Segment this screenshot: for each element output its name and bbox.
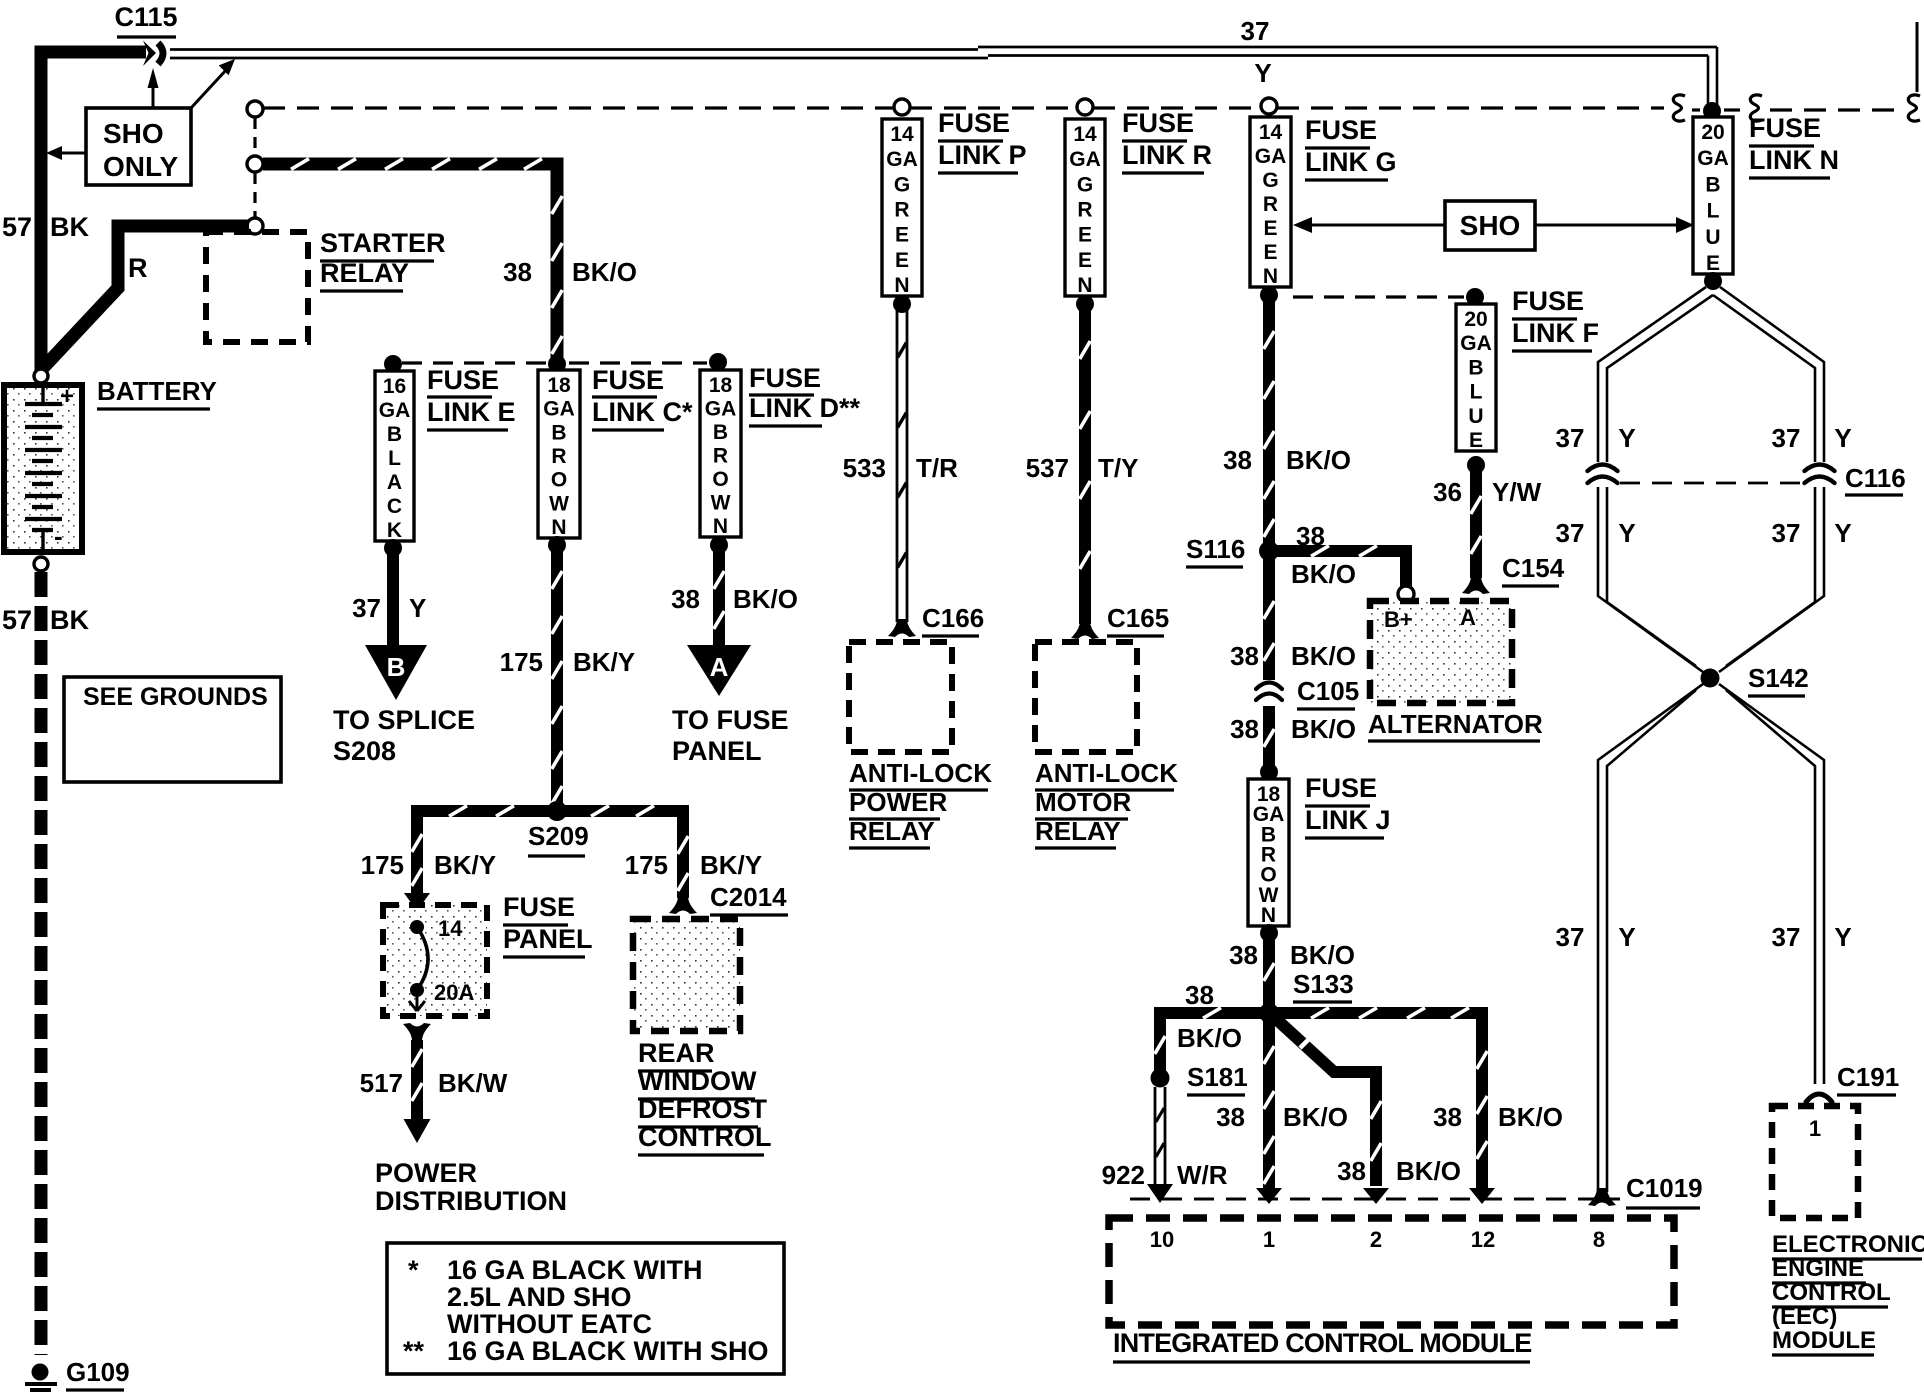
svg-text:BK/O: BK/O (1498, 1102, 1563, 1132)
svg-text:WITHOUT EATC: WITHOUT EATC (447, 1309, 652, 1339)
svg-text:C154: C154 (1502, 553, 1565, 583)
svg-text:BK/O: BK/O (1286, 445, 1351, 475)
svg-text:N: N (551, 516, 566, 539)
svg-text:FUSE: FUSE (1122, 108, 1194, 138)
svg-text:LINK P: LINK P (938, 140, 1027, 170)
svg-text:N: N (1261, 904, 1276, 927)
svg-text:2.5L AND SHO: 2.5L AND SHO (447, 1282, 632, 1312)
svg-text:FUSE: FUSE (427, 365, 499, 395)
svg-text:Y: Y (1618, 518, 1635, 548)
svg-text:LINK C*: LINK C* (592, 397, 693, 427)
svg-text:E: E (895, 249, 909, 272)
svg-text:A: A (1460, 605, 1476, 630)
svg-text:CONTROL: CONTROL (1772, 1279, 1891, 1306)
svg-text:C115: C115 (114, 2, 177, 32)
svg-text:BK/O: BK/O (733, 584, 798, 614)
svg-text:BK: BK (50, 605, 89, 635)
svg-text:GA: GA (1255, 145, 1287, 168)
svg-text:R: R (713, 445, 728, 468)
svg-text:RELAY: RELAY (1035, 816, 1121, 846)
svg-text:ANTI-LOCK: ANTI-LOCK (849, 758, 992, 788)
svg-text:POWER: POWER (375, 1158, 477, 1188)
svg-text:BK/O: BK/O (1291, 641, 1356, 671)
svg-text:FUSE: FUSE (749, 363, 821, 393)
svg-text:GA: GA (886, 148, 918, 171)
svg-text:14: 14 (890, 123, 914, 146)
svg-text:MOTOR: MOTOR (1035, 787, 1132, 817)
svg-text:N: N (1263, 265, 1278, 288)
svg-text:GA: GA (379, 399, 411, 422)
svg-text:38: 38 (1216, 1102, 1245, 1132)
svg-text:Y: Y (1618, 423, 1635, 453)
svg-text:W: W (711, 492, 731, 515)
svg-text:G: G (894, 173, 910, 196)
svg-text:20: 20 (1464, 308, 1487, 331)
svg-text:BK/O: BK/O (1396, 1156, 1461, 1186)
svg-text:12: 12 (1471, 1227, 1495, 1252)
svg-text:C: C (387, 495, 402, 518)
svg-text:37: 37 (1772, 922, 1801, 952)
svg-text:ELECTRONIC: ELECTRONIC (1772, 1231, 1924, 1258)
svg-text:N: N (713, 515, 728, 538)
svg-text:BK/O: BK/O (1177, 1023, 1242, 1053)
svg-text:FUSE: FUSE (1305, 115, 1377, 145)
svg-text:E: E (1263, 241, 1277, 264)
svg-text:DEFROST: DEFROST (638, 1094, 768, 1124)
svg-text:20: 20 (1701, 121, 1724, 144)
svg-text:E: E (1078, 224, 1092, 247)
svg-text:BK/O: BK/O (572, 257, 637, 287)
svg-text:10: 10 (1150, 1227, 1174, 1252)
svg-text:57: 57 (2, 605, 32, 635)
svg-text:BK/O: BK/O (1291, 714, 1356, 744)
svg-text:B: B (713, 421, 728, 444)
svg-text:1: 1 (1809, 1116, 1821, 1141)
svg-text:14: 14 (1073, 123, 1097, 146)
svg-text:ANTI-LOCK: ANTI-LOCK (1035, 758, 1178, 788)
svg-text:BK: BK (50, 212, 89, 242)
svg-text:Y/W: Y/W (1492, 477, 1542, 507)
svg-text:37: 37 (1241, 16, 1270, 46)
svg-text:16 GA BLACK WITH: 16 GA BLACK WITH (447, 1255, 703, 1285)
svg-text:B: B (387, 652, 406, 682)
svg-text:B: B (387, 423, 402, 446)
svg-text:175: 175 (625, 850, 668, 880)
svg-text:175: 175 (500, 647, 543, 677)
svg-text:S181: S181 (1187, 1062, 1248, 1092)
svg-text:FUSE: FUSE (938, 108, 1010, 138)
svg-text:SHO: SHO (1460, 210, 1521, 241)
svg-text:517: 517 (360, 1068, 403, 1098)
svg-text:G: G (1262, 169, 1278, 192)
svg-text:38: 38 (503, 257, 532, 287)
svg-text:REAR: REAR (638, 1038, 715, 1068)
svg-text:LINK J: LINK J (1305, 805, 1391, 835)
svg-text:Y: Y (1834, 518, 1851, 548)
svg-text:A: A (387, 471, 402, 494)
svg-text:18: 18 (709, 374, 733, 397)
svg-text:S142: S142 (1748, 663, 1809, 693)
svg-text:G: G (1077, 173, 1093, 196)
svg-text:BK/O: BK/O (1283, 1102, 1348, 1132)
svg-text:*: * (408, 1255, 419, 1285)
svg-text:B: B (1468, 356, 1483, 379)
svg-text:BK/O: BK/O (1291, 559, 1356, 589)
svg-text:SHO: SHO (103, 118, 164, 149)
svg-text:-: - (54, 521, 63, 551)
svg-text:37: 37 (1772, 423, 1801, 453)
svg-text:ALTERNATOR: ALTERNATOR (1368, 709, 1543, 739)
svg-text:S133: S133 (1293, 969, 1354, 999)
svg-text:BK/Y: BK/Y (573, 647, 635, 677)
svg-text:38: 38 (1433, 1102, 1462, 1132)
svg-text:38: 38 (671, 584, 700, 614)
svg-text:E: E (1469, 429, 1483, 452)
svg-text:37: 37 (1556, 922, 1585, 952)
svg-text:16: 16 (383, 375, 406, 398)
svg-text:TO SPLICE: TO SPLICE (333, 705, 475, 735)
svg-text:BK/Y: BK/Y (434, 850, 496, 880)
svg-text:SEE GROUNDS: SEE GROUNDS (83, 683, 268, 711)
svg-text:GA: GA (705, 398, 737, 421)
svg-text:WINDOW: WINDOW (638, 1066, 757, 1096)
svg-text:A: A (710, 652, 729, 682)
svg-text:38: 38 (1223, 445, 1252, 475)
svg-text:L: L (1707, 200, 1720, 223)
svg-text:FUSE: FUSE (592, 365, 664, 395)
svg-text:Y: Y (409, 593, 426, 623)
svg-text:S116: S116 (1186, 534, 1245, 564)
svg-text:16 GA BLACK WITH SHO: 16 GA BLACK WITH SHO (447, 1336, 769, 1366)
svg-text:**: ** (403, 1336, 425, 1366)
svg-text:LINK R: LINK R (1122, 140, 1212, 170)
svg-text:LINK E: LINK E (427, 397, 516, 427)
svg-text:E: E (1706, 252, 1720, 275)
svg-text:36: 36 (1433, 477, 1462, 507)
svg-text:B: B (551, 421, 566, 444)
svg-text:N: N (1077, 274, 1092, 297)
svg-text:38: 38 (1229, 940, 1258, 970)
svg-text:PANEL: PANEL (503, 924, 593, 954)
svg-text:BATTERY: BATTERY (97, 376, 217, 406)
svg-text:C1019: C1019 (1626, 1173, 1703, 1203)
svg-text:U: U (1705, 226, 1720, 249)
svg-text:W/R: W/R (1177, 1160, 1228, 1190)
svg-text:FUSE: FUSE (1749, 113, 1821, 143)
svg-text:N: N (894, 274, 909, 297)
svg-text:37: 37 (1556, 423, 1585, 453)
svg-text:G109: G109 (66, 1357, 130, 1387)
svg-text:533: 533 (843, 453, 886, 483)
svg-text:18: 18 (547, 374, 571, 397)
svg-text:RELAY: RELAY (849, 816, 935, 846)
svg-text:R: R (1077, 199, 1092, 222)
svg-text:POWER: POWER (849, 787, 947, 817)
svg-text:S208: S208 (333, 736, 396, 766)
svg-text:LINK N: LINK N (1749, 145, 1839, 175)
svg-text:INTEGRATED CONTROL MODULE: INTEGRATED CONTROL MODULE (1113, 1328, 1532, 1358)
svg-text:C166: C166 (922, 603, 984, 633)
svg-text:C165: C165 (1107, 603, 1169, 633)
svg-text:R: R (894, 199, 909, 222)
svg-text:Y: Y (1618, 922, 1635, 952)
svg-text:MODULE: MODULE (1772, 1327, 1876, 1354)
svg-text:O: O (551, 469, 567, 492)
svg-text:BK/O: BK/O (1290, 940, 1355, 970)
svg-text:T/R: T/R (916, 453, 958, 483)
svg-text:57: 57 (2, 212, 32, 242)
svg-text:TO FUSE: TO FUSE (672, 705, 789, 735)
svg-text:37: 37 (1772, 518, 1801, 548)
svg-text:LINK F: LINK F (1512, 318, 1599, 348)
svg-text:T/Y: T/Y (1098, 453, 1138, 483)
svg-text:38: 38 (1230, 714, 1259, 744)
svg-text:537: 537 (1026, 453, 1069, 483)
svg-text:175: 175 (361, 850, 404, 880)
svg-text:STARTER: STARTER (320, 228, 446, 258)
svg-text:FUSE: FUSE (1305, 773, 1377, 803)
svg-text:2: 2 (1370, 1227, 1382, 1252)
svg-text:W: W (549, 492, 569, 515)
svg-text:1: 1 (1263, 1227, 1275, 1252)
svg-text:C191: C191 (1837, 1062, 1899, 1092)
svg-text:E: E (895, 224, 909, 247)
svg-text:14: 14 (1259, 121, 1283, 144)
svg-text:E: E (1263, 217, 1277, 240)
svg-text:Y: Y (1834, 423, 1851, 453)
svg-text:GA: GA (543, 398, 575, 421)
svg-text:K: K (387, 519, 402, 542)
svg-text:BK/W: BK/W (438, 1068, 508, 1098)
svg-text:38: 38 (1230, 641, 1259, 671)
svg-text:8: 8 (1593, 1227, 1605, 1252)
svg-text:C2014: C2014 (710, 882, 787, 912)
svg-text:FUSE: FUSE (1512, 286, 1584, 316)
svg-text:922: 922 (1102, 1160, 1145, 1190)
svg-text:ENGINE: ENGINE (1772, 1255, 1864, 1282)
svg-text:14: 14 (438, 916, 463, 941)
svg-text:C116: C116 (1845, 463, 1906, 493)
svg-text:GA: GA (1697, 147, 1729, 170)
svg-text:CONTROL: CONTROL (638, 1122, 771, 1152)
svg-text:LINK D**: LINK D** (749, 393, 860, 423)
svg-text:(EEC): (EEC) (1772, 1303, 1837, 1330)
svg-text:C105: C105 (1297, 676, 1359, 706)
svg-text:LINK G: LINK G (1305, 147, 1397, 177)
svg-text:E: E (1078, 249, 1092, 272)
svg-text:37: 37 (352, 593, 381, 623)
svg-text:GA: GA (1460, 332, 1492, 355)
svg-text:U: U (1468, 405, 1483, 428)
svg-text:38: 38 (1296, 521, 1325, 551)
svg-text:Y: Y (1834, 922, 1851, 952)
svg-text:L: L (1470, 381, 1483, 404)
svg-text:38: 38 (1185, 980, 1214, 1010)
svg-text:O: O (712, 468, 728, 491)
svg-text:ONLY: ONLY (103, 151, 179, 182)
svg-text:38: 38 (1337, 1156, 1366, 1186)
svg-text:PANEL: PANEL (672, 736, 762, 766)
svg-text:37: 37 (1556, 518, 1585, 548)
svg-text:BK/Y: BK/Y (700, 850, 762, 880)
svg-text:S209: S209 (528, 821, 589, 851)
svg-text:GA: GA (1069, 148, 1101, 171)
svg-text:R: R (128, 253, 148, 283)
svg-text:B: B (1705, 173, 1720, 196)
svg-text:20A: 20A (434, 980, 474, 1005)
svg-text:L: L (388, 447, 401, 470)
svg-text:RELAY: RELAY (320, 258, 409, 288)
svg-text:FUSE: FUSE (503, 892, 575, 922)
svg-text:+: + (60, 383, 74, 410)
svg-text:DISTRIBUTION: DISTRIBUTION (375, 1186, 567, 1216)
svg-text:B+: B+ (1384, 607, 1413, 632)
svg-text:Y: Y (1254, 58, 1271, 88)
svg-text:R: R (551, 445, 566, 468)
svg-text:R: R (1263, 193, 1278, 216)
